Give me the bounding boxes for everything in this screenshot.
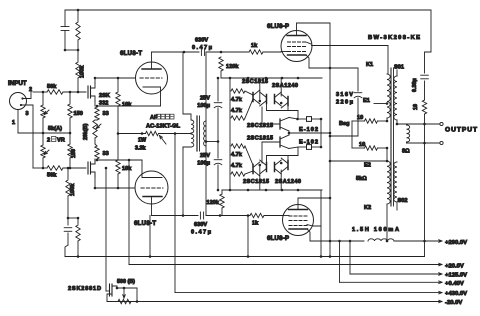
svg-text:VR: VR <box>57 138 65 144</box>
svg-text:2SC1815: 2SC1815 <box>247 136 273 142</box>
svg-text:56k: 56k <box>47 173 57 179</box>
svg-text:3.3k: 3.3k <box>135 146 146 152</box>
svg-text:2SK2881D: 2SK2881D <box>68 286 101 292</box>
svg-text:S02: S02 <box>398 198 408 204</box>
svg-text:4.7k: 4.7k <box>231 108 243 114</box>
svg-text:25V: 25V <box>200 96 210 102</box>
svg-text:0.38μ: 0.38μ <box>412 78 418 92</box>
svg-text:6LU8-T: 6LU8-T <box>120 51 142 57</box>
svg-text:10: 10 <box>413 104 419 110</box>
svg-text:K2: K2 <box>364 205 371 211</box>
svg-text:+0.40V: +0.40V <box>445 281 464 287</box>
svg-text:220μ: 220μ <box>336 100 354 106</box>
svg-text:5k(A): 5k(A) <box>48 126 62 132</box>
svg-text:E2: E2 <box>364 163 371 169</box>
svg-text:+290.0V: +290.0V <box>445 240 467 246</box>
svg-text:BW-3K208-KE: BW-3K208-KE <box>368 35 420 41</box>
svg-text:8Ω: 8Ω <box>402 149 410 155</box>
svg-text:10: 10 <box>359 142 365 148</box>
svg-text:100k: 100k <box>70 183 76 196</box>
svg-text:150: 150 <box>71 149 77 158</box>
svg-text:AC-13KT-GL: AC-13KT-GL <box>146 124 181 130</box>
svg-text:+20.0V: +20.0V <box>445 264 464 270</box>
svg-text:1W: 1W <box>138 138 147 144</box>
svg-text:1: 1 <box>12 120 15 126</box>
svg-text:-20.0V: -20.0V <box>445 300 462 306</box>
svg-text:0.47μ: 0.47μ <box>191 230 212 236</box>
svg-text:630V: 630V <box>194 222 207 228</box>
svg-text:1k: 1k <box>252 221 259 227</box>
svg-text:5kΩ: 5kΩ <box>356 176 367 182</box>
svg-text:E1: E1 <box>363 98 370 104</box>
svg-text:6LU8-T: 6LU8-T <box>134 221 156 227</box>
svg-text:56k: 56k <box>47 84 57 90</box>
svg-text:+125.0V: +125.0V <box>445 273 467 279</box>
svg-text:630V: 630V <box>195 38 208 44</box>
svg-text:3: 3 <box>26 111 29 117</box>
svg-text:4.7k: 4.7k <box>231 163 243 169</box>
svg-text:Bsg: Bsg <box>339 121 350 127</box>
svg-text:2SC1815: 2SC1815 <box>242 79 268 85</box>
svg-text:100μ: 100μ <box>197 161 210 167</box>
svg-text:2: 2 <box>29 87 32 93</box>
svg-text:1.5H 160mA: 1.5H 160mA <box>352 227 399 233</box>
svg-text:2SA1240: 2SA1240 <box>272 83 298 89</box>
svg-text:1k: 1k <box>251 43 258 49</box>
svg-text:E-102: E-102 <box>299 127 318 133</box>
svg-text:500 (B): 500 (B) <box>117 279 135 285</box>
svg-text:4.7k: 4.7k <box>231 152 243 158</box>
svg-text:25V: 25V <box>200 153 210 159</box>
svg-text:+430.0V: +430.0V <box>445 291 467 297</box>
svg-text:316V: 316V <box>336 92 353 98</box>
svg-text:S01: S01 <box>394 65 404 71</box>
svg-text:INPUT: INPUT <box>8 80 27 87</box>
svg-text:120k: 120k <box>226 64 239 70</box>
svg-text:6LU8-P: 6LU8-P <box>267 236 289 242</box>
svg-text:E-102: E-102 <box>299 140 318 146</box>
svg-text:150: 150 <box>74 111 83 117</box>
svg-text:2SK: 2SK <box>99 93 110 99</box>
svg-text:100μ: 100μ <box>197 103 210 109</box>
svg-text:OUTPUT: OUTPUT <box>445 127 477 134</box>
svg-text:10k: 10k <box>122 166 132 172</box>
svg-text:K1: K1 <box>366 62 373 68</box>
svg-text:20k(B): 20k(B) <box>83 123 89 140</box>
svg-text:10: 10 <box>357 115 363 121</box>
svg-text:10k: 10k <box>122 102 132 108</box>
svg-text:6LU8-P: 6LU8-P <box>267 24 289 30</box>
svg-text:0.47μ: 0.47μ <box>192 45 213 51</box>
svg-text:4.7k: 4.7k <box>231 97 243 103</box>
svg-text:2: 2 <box>47 138 50 144</box>
svg-text:120k: 120k <box>207 200 220 206</box>
svg-text:2SA1240: 2SA1240 <box>275 179 301 185</box>
svg-text:100k: 100k <box>80 65 86 78</box>
svg-text:2SC1815: 2SC1815 <box>243 179 269 185</box>
svg-text:33: 33 <box>103 111 109 117</box>
svg-text:33: 33 <box>103 151 109 157</box>
